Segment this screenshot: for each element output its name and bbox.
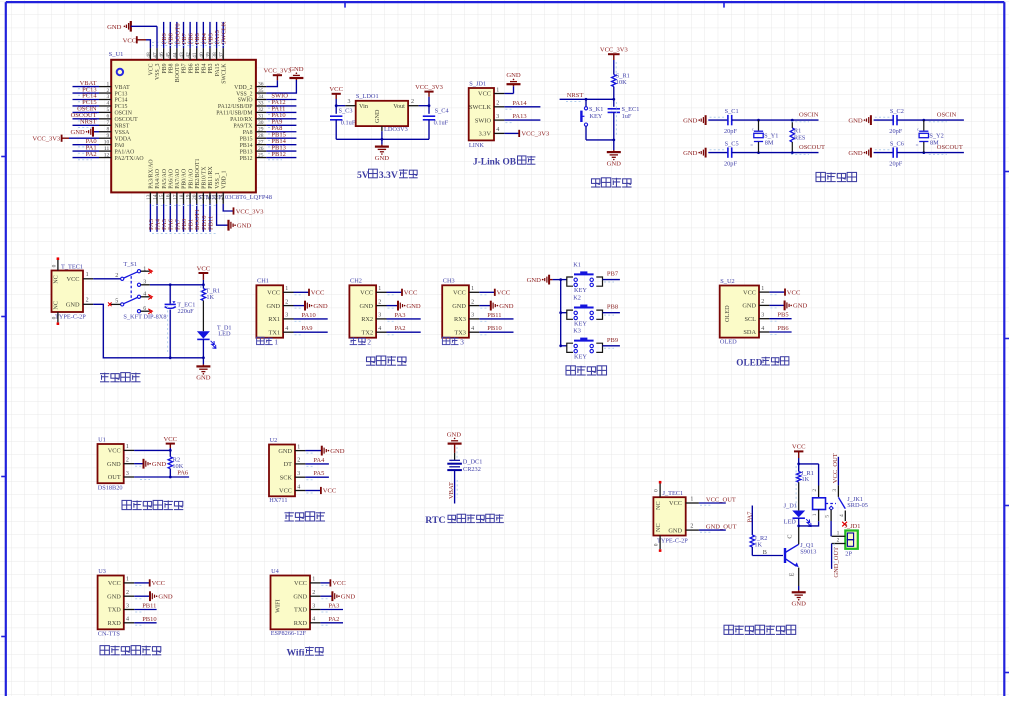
svg-text:c: c	[917, 126, 919, 131]
wire	[320, 609, 343, 611]
svg-text:PA1/AO: PA1/AO	[115, 149, 135, 155]
wire	[93, 304, 203, 358]
frame tick right 1	[1004, 171, 1009, 173]
svg-text:VCC: VCC	[108, 580, 121, 587]
wire	[336, 105, 345, 107]
power flag VCC	[401, 289, 403, 296]
svg-text:TYPE-C-2P: TYPE-C-2P	[55, 313, 86, 320]
wire VBAT	[454, 471, 456, 504]
wire	[69, 137, 99, 139]
ground	[304, 301, 306, 311]
svg-text:2: 2	[297, 458, 300, 464]
wire	[266, 80, 296, 93]
svg-text:PB9: PB9	[162, 63, 168, 73]
svg-text:VCC: VCC	[332, 580, 346, 587]
wire	[266, 131, 296, 133]
svg-text:VDD_2: VDD_2	[234, 85, 252, 91]
svg-text:GND: GND	[793, 303, 808, 310]
svg-text:4: 4	[839, 514, 845, 517]
pin 0 top	[57, 260, 59, 271]
wire	[202, 301, 204, 332]
svg-text:4: 4	[761, 326, 764, 332]
svg-text:2: 2	[411, 99, 414, 105]
frame tick left 2	[1, 316, 6, 318]
svg-text:RES: RES	[794, 135, 806, 142]
svg-text:DS18B20: DS18B20	[98, 484, 123, 491]
svg-text:OSCIN: OSCIN	[937, 112, 957, 119]
svg-text:2: 2	[312, 590, 315, 596]
title key circuit	[566, 366, 575, 375]
svg-text:GND: GND	[107, 24, 122, 31]
svg-text:3: 3	[460, 338, 464, 347]
svg-text:VSS_2: VSS_2	[236, 91, 253, 97]
svg-text:GND: GND	[196, 375, 211, 382]
regulator S_LDO1 LDO3V3	[356, 101, 408, 126]
svg-text:3: 3	[471, 313, 474, 319]
wire	[73, 150, 100, 152]
node PA7	[751, 506, 753, 536]
svg-text:GND: GND	[527, 277, 542, 284]
svg-text:4: 4	[297, 484, 300, 490]
svg-text:NRST: NRST	[567, 92, 584, 99]
wire	[305, 490, 321, 492]
wire	[266, 124, 296, 126]
svg-text:1: 1	[690, 496, 693, 502]
resistor J_R2 1K	[750, 535, 754, 547]
svg-text:VDD_1: VDD_1	[221, 170, 227, 188]
frame tick top 1	[344, 2, 346, 8]
wire	[419, 105, 429, 107]
svg-text:2: 2	[496, 101, 499, 107]
svg-text:OSCOUT: OSCOUT	[115, 117, 139, 123]
switch link dashes	[130, 276, 132, 299]
svg-text:SWCLK: SWCLK	[469, 104, 491, 111]
svg-text:S_C6: S_C6	[890, 140, 904, 147]
svg-text:NC: NC	[53, 275, 60, 284]
wire	[134, 622, 156, 624]
svg-text:1: 1	[496, 87, 499, 93]
svg-text:VSS_1: VSS_1	[215, 172, 221, 189]
svg-text:VCC: VCC	[267, 290, 280, 297]
svg-text:E: E	[789, 572, 796, 576]
svg-text:SCK: SCK	[280, 474, 293, 481]
wire	[134, 609, 156, 611]
title relay control circuit	[724, 625, 733, 634]
svg-text:VCC_OUT: VCC_OUT	[832, 453, 839, 483]
svg-text:T_TEC1: T_TEC1	[61, 264, 83, 271]
svg-text:GND: GND	[266, 303, 280, 310]
svg-text:GND: GND	[71, 129, 86, 136]
connector T_TEC1 TYPE-C-2P	[52, 271, 84, 313]
svg-text:SWIO: SWIO	[475, 117, 492, 124]
svg-text:NC: NC	[53, 301, 60, 310]
capacitor S_C6 20pF	[892, 147, 894, 157]
svg-text:PA9/TX: PA9/TX	[233, 124, 253, 130]
wire	[732, 152, 819, 154]
svg-text:NC: NC	[655, 523, 662, 532]
svg-text:TX1: TX1	[269, 329, 281, 336]
wire	[294, 291, 310, 293]
svg-text:PA10/RX: PA10/RX	[230, 117, 253, 123]
switch S_K1 KEY	[584, 107, 587, 110]
wire	[294, 331, 328, 333]
svg-text:S9013: S9013	[800, 549, 816, 556]
wire bottom rail	[336, 138, 429, 140]
svg-text:3: 3	[378, 313, 381, 319]
switch K2 KEY	[561, 312, 567, 314]
frame border	[6, 1, 1005, 3]
svg-text:VCC: VCC	[149, 63, 155, 75]
svg-text:3: 3	[348, 99, 351, 105]
svg-text:VBAT: VBAT	[448, 482, 455, 499]
svg-text:VCC: VCC	[311, 290, 325, 297]
wire base	[752, 555, 783, 557]
svg-text:GND: GND	[374, 109, 381, 123]
svg-text:S_C1: S_C1	[725, 108, 739, 115]
wire	[202, 22, 204, 48]
svg-text:VCC_OUT: VCC_OUT	[706, 496, 736, 503]
wire	[189, 204, 191, 232]
wire	[320, 595, 332, 597]
svg-text:Wifi: Wifi	[287, 648, 305, 659]
wire	[196, 204, 198, 232]
svg-text:PB13: PB13	[240, 149, 253, 155]
svg-text:PB12: PB12	[240, 156, 253, 162]
wire	[266, 118, 296, 120]
label serial port 2	[350, 337, 358, 339]
svg-text:S_C4: S_C4	[435, 108, 450, 115]
svg-text:8M: 8M	[765, 139, 774, 146]
resistor R1 RES	[791, 120, 793, 128]
svg-text:PB5: PB5	[777, 312, 788, 319]
svg-text:OLED: OLED	[720, 339, 737, 346]
capacitor S_C1 20pF	[727, 115, 729, 125]
svg-text:4: 4	[285, 326, 288, 332]
connector J_JD1 2P	[845, 531, 858, 549]
wire	[387, 318, 421, 320]
svg-text:LINK: LINK	[469, 142, 484, 149]
svg-text:2: 2	[761, 299, 764, 305]
wire	[73, 105, 100, 107]
svg-text:PB8: PB8	[168, 63, 174, 73]
svg-text:PA13: PA13	[512, 113, 526, 120]
svg-text:S_LDO1: S_LDO1	[356, 93, 379, 100]
wire	[504, 119, 540, 121]
svg-text:NRST: NRST	[80, 119, 97, 126]
svg-text:3: 3	[126, 471, 129, 477]
svg-text:LDO3V3: LDO3V3	[384, 126, 408, 133]
svg-text:OSCIN: OSCIN	[115, 111, 133, 117]
svg-text:C: C	[787, 534, 794, 538]
svg-text:GND: GND	[66, 302, 80, 309]
svg-text:GND: GND	[452, 303, 466, 310]
svg-text:2P: 2P	[845, 550, 852, 557]
wire	[169, 448, 171, 457]
svg-text:PA6/AO: PA6/AO	[168, 169, 174, 189]
svg-text:2: 2	[690, 524, 693, 530]
svg-text:VCC: VCC	[164, 436, 178, 443]
frame tick right 3	[1004, 505, 1009, 507]
svg-text:VCC: VCC	[197, 266, 211, 273]
svg-text:2: 2	[126, 590, 129, 596]
frame tick left 3	[1, 476, 6, 478]
svg-text:GND: GND	[237, 223, 252, 230]
svg-text:0: 0	[51, 316, 57, 319]
svg-text:PB8: PB8	[607, 304, 618, 311]
svg-text:U4: U4	[271, 568, 280, 575]
wire	[769, 304, 784, 306]
wire	[222, 22, 224, 48]
no-connect x	[148, 294, 152, 299]
wire	[798, 458, 800, 472]
svg-text:K2: K2	[573, 295, 581, 302]
power flag VCC	[320, 487, 322, 494]
svg-text:PA2/TX/AO: PA2/TX/AO	[115, 156, 144, 162]
svg-text:VCC_3V3: VCC_3V3	[236, 208, 264, 215]
ground	[513, 84, 515, 86]
wire	[479, 291, 495, 293]
connector CH1	[256, 285, 283, 337]
svg-text:PC14: PC14	[115, 98, 128, 104]
svg-text:1K: 1K	[754, 542, 762, 549]
svg-text:4: 4	[378, 326, 381, 332]
title crystal circuit	[816, 172, 825, 181]
svg-text:VCC_3V3: VCC_3V3	[521, 131, 549, 138]
wire	[305, 463, 329, 465]
wire	[134, 463, 143, 465]
svg-text:GND: GND	[152, 461, 167, 468]
svg-text:GND: GND	[683, 117, 698, 124]
wire	[305, 476, 329, 478]
ground	[784, 301, 786, 311]
svg-text:20pF: 20pF	[724, 160, 737, 167]
svg-text:KEY: KEY	[574, 287, 587, 294]
wire	[585, 126, 587, 140]
wire	[163, 22, 165, 48]
svg-text:PA5: PA5	[313, 470, 324, 477]
svg-text:PA12/USB/DP: PA12/USB/DP	[218, 104, 253, 110]
svg-text:VSSA: VSSA	[115, 130, 131, 136]
wire	[266, 157, 296, 159]
label serial port 1	[257, 337, 265, 344]
power flag VCC_3V3	[518, 130, 520, 137]
svg-text:PB0/AO: PB0/AO	[182, 169, 188, 189]
wire	[769, 318, 791, 320]
frame tick right 2	[1004, 338, 1009, 340]
capacitor S_C2 20pF	[892, 115, 894, 125]
svg-text:PB2/BOOT1: PB2/BOOT1	[195, 158, 201, 188]
svg-text:TX3: TX3	[454, 329, 466, 336]
svg-text:S_C5: S_C5	[725, 140, 739, 147]
svg-text:RXD: RXD	[108, 620, 122, 627]
wire	[699, 502, 726, 504]
power flag VCC	[784, 289, 786, 296]
wire	[169, 469, 171, 477]
svg-text:1: 1	[312, 577, 315, 583]
title temperature module	[122, 500, 131, 509]
svg-text:4: 4	[126, 617, 129, 623]
svg-text:3: 3	[832, 489, 838, 492]
svg-text:PB11/RX: PB11/RX	[208, 166, 214, 189]
svg-text:VCC: VCC	[108, 448, 121, 455]
svg-text:PA6: PA6	[177, 470, 189, 477]
svg-text:PB1/AO: PB1/AO	[188, 169, 194, 189]
svg-text:1: 1	[378, 286, 381, 292]
svg-text:VCC: VCC	[478, 91, 491, 98]
svg-text:GND: GND	[107, 461, 121, 468]
pin 1 J_JD1	[832, 535, 846, 537]
svg-text:VCC: VCC	[123, 37, 137, 44]
wire pin1 to GND	[504, 93, 513, 95]
resistor S_R1 10K	[612, 75, 616, 87]
svg-text:GND: GND	[341, 594, 356, 601]
svg-text:GND: GND	[506, 72, 521, 79]
svg-text:GND: GND	[668, 527, 682, 534]
wire	[202, 339, 204, 357]
svg-text:PA14: PA14	[512, 100, 527, 107]
svg-text:VCC: VCC	[360, 290, 373, 297]
wire	[479, 331, 513, 333]
wire	[320, 622, 343, 624]
ground	[490, 301, 492, 311]
capacitor S_EC1 1uF	[613, 99, 615, 107]
svg-text:VBAT: VBAT	[115, 85, 131, 91]
wire coil return	[799, 521, 819, 526]
svg-text:GND: GND	[683, 150, 698, 157]
svg-text:PA4/AO: PA4/AO	[155, 169, 161, 189]
svg-text:PB11: PB11	[142, 603, 156, 610]
wire	[897, 119, 964, 121]
svg-text:PB3: PB3	[208, 63, 214, 73]
wire	[381, 131, 383, 139]
svg-text:VCC: VCC	[669, 500, 682, 507]
svg-text:T_S1: T_S1	[123, 261, 137, 268]
svg-text:2: 2	[837, 538, 840, 544]
capacitor S_C3 0.1uF	[330, 115, 342, 117]
svg-text:GND: GND	[447, 431, 462, 438]
resistor R2 10K	[168, 457, 172, 469]
svg-text:PA3: PA3	[328, 603, 339, 610]
svg-text:PB9: PB9	[607, 337, 618, 344]
wire	[613, 140, 615, 150]
wire	[266, 150, 296, 152]
svg-text:=: =	[750, 143, 753, 148]
svg-text:3: 3	[297, 471, 300, 477]
svg-text:PA7/AO: PA7/AO	[175, 169, 181, 189]
wire	[93, 131, 99, 133]
svg-text:TYPE-C-2P: TYPE-C-2P	[657, 538, 688, 545]
wire	[504, 106, 540, 108]
svg-text:K1: K1	[573, 261, 581, 268]
svg-text:GND: GND	[330, 448, 345, 455]
capacitor S_C4 0.1uF	[423, 115, 435, 117]
svg-text:NRST: NRST	[115, 124, 130, 130]
svg-text:VCC: VCC	[497, 290, 511, 297]
wire	[320, 582, 330, 584]
svg-text:2: 2	[812, 489, 818, 492]
svg-text:PA11/USB/DM: PA11/USB/DM	[216, 111, 252, 117]
svg-text:OLED: OLED	[724, 305, 731, 322]
wire	[266, 137, 296, 139]
selection marks	[200, 286, 202, 298]
wire	[699, 529, 726, 531]
svg-text:0.1uF: 0.1uF	[434, 120, 449, 127]
svg-text:Vout: Vout	[393, 103, 405, 110]
ground	[798, 590, 800, 592]
svg-text:1: 1	[126, 577, 129, 583]
svg-text:PB11: PB11	[487, 312, 501, 319]
svg-text:KEY: KEY	[574, 320, 587, 327]
no-connect x	[108, 302, 112, 306]
ground	[295, 78, 297, 80]
power flag VCC	[494, 289, 496, 296]
svg-text:TXD: TXD	[294, 607, 307, 614]
svg-text:3: 3	[285, 313, 288, 319]
wire	[798, 586, 800, 590]
wire	[305, 450, 321, 452]
capacitor S_C5 20pF	[727, 147, 729, 157]
wire	[613, 60, 615, 75]
svg-text:1: 1	[297, 444, 300, 450]
wire	[335, 99, 337, 114]
svg-text:PB10: PB10	[487, 325, 501, 332]
svg-text:KEY: KEY	[590, 113, 603, 120]
connector S_U2	[720, 286, 759, 338]
ground	[227, 220, 229, 231]
svg-text:PA10: PA10	[302, 312, 316, 319]
svg-text:OLED: OLED	[736, 357, 762, 367]
wire	[266, 111, 296, 113]
svg-text:GND: GND	[499, 303, 514, 310]
svg-text:2: 2	[285, 299, 288, 305]
svg-text:GND: GND	[359, 303, 373, 310]
wire pin 24 to VCC_3V3	[223, 204, 233, 211]
wire pin 23 to GND	[217, 204, 228, 225]
wire	[613, 87, 615, 100]
ground	[397, 301, 399, 311]
svg-text:PA5/AO: PA5/AO	[162, 169, 168, 189]
svg-text:KEY: KEY	[574, 353, 587, 360]
svg-text:VCC_3V3: VCC_3V3	[600, 47, 628, 54]
svg-text:3.3V: 3.3V	[479, 131, 492, 138]
connector CH2	[349, 285, 376, 337]
wire emitter	[798, 568, 800, 586]
transistor J_Q1 S9013	[784, 548, 786, 563]
ground	[321, 446, 323, 456]
wire	[202, 204, 204, 232]
svg-text:5: 5	[115, 299, 118, 305]
svg-text:PB4: PB4	[202, 63, 208, 73]
svg-text:U1: U1	[98, 436, 106, 443]
wire	[134, 595, 150, 597]
capacitor T_EC1 220uF	[169, 285, 171, 304]
led J_D1 LED	[792, 511, 805, 518]
battery D_DC1 CR232	[449, 459, 460, 461]
wire	[73, 92, 100, 94]
svg-text:PA0: PA0	[115, 143, 125, 149]
svg-text:CN-TTS: CN-TTS	[98, 631, 121, 638]
wire	[454, 453, 456, 460]
wire	[93, 278, 121, 280]
svg-text:VCC: VCC	[404, 290, 418, 297]
wire	[202, 280, 204, 289]
wire	[603, 279, 620, 281]
svg-text:NC: NC	[655, 501, 662, 510]
wire collector	[798, 526, 800, 544]
svg-text:VDDA: VDDA	[115, 136, 133, 142]
svg-text:3: 3	[126, 603, 129, 609]
wire	[769, 291, 785, 293]
